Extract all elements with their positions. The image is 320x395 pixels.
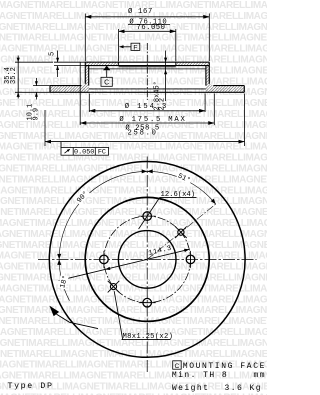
18 deg dim arc (59, 259, 69, 300)
dim Ø76.110/76.050 ext left (118, 29, 120, 61)
bolt hole E (186, 255, 195, 264)
datum F box (131, 43, 140, 50)
datum C box (101, 77, 112, 86)
svg-text:0.050: 0.050 (74, 149, 94, 157)
dim 10.1/9.9 ext top (33, 85, 50, 87)
dim 114.3 line (59, 249, 190, 280)
mounting face datum box (173, 361, 182, 369)
chamfer text 2.8x45 / 2.2 (152, 81, 166, 110)
76.110/76.050 separator (128, 24, 170, 26)
bolt hole S (143, 298, 152, 307)
svg-text:MAGNETIMARELLIMAGNETIMARELLIMA: MAGNETIMARELLIMAGNETIMARELLIMAGNETIMAREL… (0, 262, 267, 273)
svg-text:MAGNETIMARELLIMAGNETIMARELLIMA: MAGNETIMARELLIMAGNETIMARELLIMAGNETIMAREL… (0, 174, 267, 185)
dim 10.1/9.9 text (27, 104, 41, 121)
svg-text:MAGNETIMARELLIMAGNETIMARELLIMA: MAGNETIMARELLIMAGNETIMARELLIMAGNETIMAREL… (0, 218, 267, 229)
label M8 leader (114, 291, 123, 339)
dim Ø175.5 line (80, 122, 214, 124)
section outline: disc top left (50, 85, 81, 87)
threaded hole T1 radial line (147, 204, 216, 259)
svg-text:3.6 Kg: 3.6 Kg (225, 384, 263, 393)
dim 5 line upper (57, 51, 59, 63)
dim 5 ext top (54, 61, 85, 63)
datum C triangle (103, 66, 110, 71)
svg-text:MAGNETIMARELLIMAGNETIMARELLIMA: MAGNETIMARELLIMAGNETIMARELLIMAGNETIMAREL… (0, 349, 267, 360)
51 deg label (175, 170, 193, 185)
dim Ø167 ext right (208, 14, 210, 62)
dim 10.1/9.9 upper line (35, 78, 37, 86)
18 deg label (58, 274, 71, 289)
slab right edge (208, 62, 210, 65)
dim 114.3 text (148, 245, 173, 258)
svg-text:MAGNETIMARELLIMAGNETIMARELLIMA: MAGNETIMARELLIMAGNETIMARELLIMAGNETIMAREL… (0, 185, 267, 196)
bolt hole N (143, 212, 152, 221)
runout symbol (65, 149, 70, 153)
dim Ø258.5 line (45, 141, 245, 143)
bore right edge (175, 62, 177, 65)
dim 35.4/35.2 line (17, 56, 19, 99)
svg-text:MAGNETIMARELLIMAGNETIMARELLIMA: MAGNETIMARELLIMAGNETIMARELLIMAGNETIMAREL… (0, 251, 267, 262)
bolt hole W (100, 255, 109, 264)
bore chamfer far edge (119, 66, 176, 68)
bore left edge (118, 62, 120, 65)
bore circle Ø76 (118, 231, 176, 289)
right wall outer (208, 66, 210, 84)
90 deg label (74, 188, 91, 206)
dim 35.4/35.2 text (4, 67, 18, 84)
label M8 underline (122, 339, 171, 341)
section centerline (146, 43, 148, 100)
dim Ø154.3 line (89, 110, 205, 112)
disc bottom (50, 91, 244, 93)
disc hatched right end (209, 86, 244, 93)
plan vertical centerline (146, 157, 148, 374)
dim Ø154.3 ext left (88, 94, 90, 113)
left wall fillet (81, 84, 85, 86)
90 deg dim arc (59, 171, 147, 259)
runout FCF connector (60, 142, 62, 148)
slab bottom line (85, 65, 209, 67)
svg-text:FC: FC (98, 149, 106, 157)
rotation direction arrow (49, 306, 59, 317)
svg-text:MAGNETIMARELLIMAGNETIMARELLIMA: MAGNETIMARELLIMAGNETIMARELLIMAGNETIMAREL… (0, 164, 267, 175)
svg-text:Min. TH 8: Min. TH 8 (172, 371, 228, 380)
threaded hole M8 top-right (178, 229, 184, 235)
right wall fillet (209, 84, 213, 86)
svg-text:Ø 167: Ø 167 (128, 7, 153, 16)
outer circle Ø258.5 (49, 162, 245, 358)
plan horizontal centerline (38, 258, 257, 260)
hat right wall hatch (206, 66, 209, 93)
runout FCF frame (61, 148, 109, 156)
dim Ø175.5 ext right (213, 94, 215, 126)
datum C stem (106, 70, 108, 77)
dim Ø258.5/258.0 ext right (244, 94, 246, 147)
rotation arrow tail (56, 314, 98, 329)
dim 5 ext bottom (54, 65, 85, 67)
dim 35.4/35.2 ext top (15, 61, 53, 63)
disc hatched left end (50, 86, 85, 93)
svg-text:MOUNTING FACE: MOUNTING FACE (183, 362, 266, 371)
dim 35.4/35.2 ext bottom (15, 91, 50, 93)
dim 5 line lower (57, 66, 59, 77)
label 12.6 underline (160, 196, 197, 198)
bolt circle Ø114.3 (104, 216, 191, 303)
dim 10.1/9.9 lower line (35, 92, 37, 99)
svg-text:F: F (133, 44, 137, 51)
hub interior line (89, 68, 206, 70)
slab top line (85, 61, 209, 63)
disc top right (213, 85, 244, 87)
svg-text:MAGNETIMARELLIMAGNETIMARELLIMA: MAGNETIMARELLIMAGNETIMARELLIMAGNETIMAREL… (0, 294, 267, 305)
svg-text:258.0: 258.0 (128, 129, 158, 137)
svg-text:MAGNETIMARELLIMAGNETIMARELLIMA: MAGNETIMARELLIMAGNETIMARELLIMAGNETIMAREL… (0, 55, 267, 66)
svg-text:C: C (174, 363, 179, 370)
interior far-side edge line (89, 88, 206, 90)
hat left wall hatch (85, 66, 88, 93)
svg-text:MAGNETIMARELLIMAGNETIMARELLIMA: MAGNETIMARELLIMAGNETIMARELLIMAGNETIMAREL… (0, 273, 267, 284)
chamfer dim line (165, 51, 167, 102)
dim Ø258.5/258.0 ext left (44, 110, 46, 146)
svg-text:MAGNETIMARELLIMAGNETIMARELLIMA: MAGNETIMARELLIMAGNETIMARELLIMAGNETIMAREL… (0, 33, 267, 44)
svg-text:35.2: 35.2 (10, 67, 18, 84)
svg-text:Weight: Weight (172, 384, 210, 393)
svg-text:5: 5 (49, 52, 57, 56)
svg-text:76.050: 76.050 (137, 24, 166, 32)
left wall inner (88, 66, 90, 86)
svg-text:MAGNETIMARELLIMAGNETIMARELLIMA: MAGNETIMARELLIMAGNETIMARELLIMAGNETIMAREL… (0, 207, 267, 218)
slab left edge (84, 62, 86, 65)
svg-text:Ø 154.3: Ø 154.3 (125, 102, 169, 111)
dim Ø154.3 ext right (204, 94, 206, 113)
svg-text:Ø 175.5 MAX: Ø 175.5 MAX (119, 115, 186, 124)
disc right edge (243, 86, 245, 93)
dim Ø76 line (119, 30, 176, 32)
dim Ø76.110/76.050 ext right (175, 29, 177, 61)
hat slab hatch left of bore (85, 62, 118, 65)
svg-text:MAGNETIMARELLIMAGNETIMARELLIMA: MAGNETIMARELLIMAGNETIMARELLIMAGNETIMAREL… (0, 305, 267, 316)
svg-text:C: C (104, 80, 109, 87)
svg-text:MAGNETIMARELLIMAGNETIMARELLIMA: MAGNETIMARELLIMAGNETIMARELLIMAGNETIMAREL… (0, 240, 267, 251)
middle circle (85, 197, 209, 321)
datum F leader (122, 46, 132, 48)
threaded hole M8 bottom-left (110, 284, 116, 290)
svg-text:MAGNETIMARELLIMAGNETIMARELLIMA: MAGNETIMARELLIMAGNETIMARELLIMAGNETIMAREL… (0, 316, 267, 327)
right wall inner (205, 66, 207, 86)
label 12.6 leader (139, 197, 160, 229)
dim Ø167 ext left (84, 14, 86, 62)
disc left edge (49, 86, 51, 93)
svg-text:Type DP: Type DP (8, 382, 54, 391)
dim Ø167 line (85, 16, 209, 18)
svg-text:MAGNETIMARELLIMAGNETIMARELLIMA: MAGNETIMARELLIMAGNETIMARELLIMAGNETIMAREL… (0, 142, 267, 153)
left wall outer (84, 66, 86, 84)
svg-text:mm: mm (254, 371, 267, 380)
hat slab hatch right of bore (176, 62, 210, 65)
svg-text:9.9: 9.9 (33, 108, 41, 121)
51 deg dim arc (147, 171, 216, 204)
dim Ø175.5 ext left (79, 63, 81, 126)
